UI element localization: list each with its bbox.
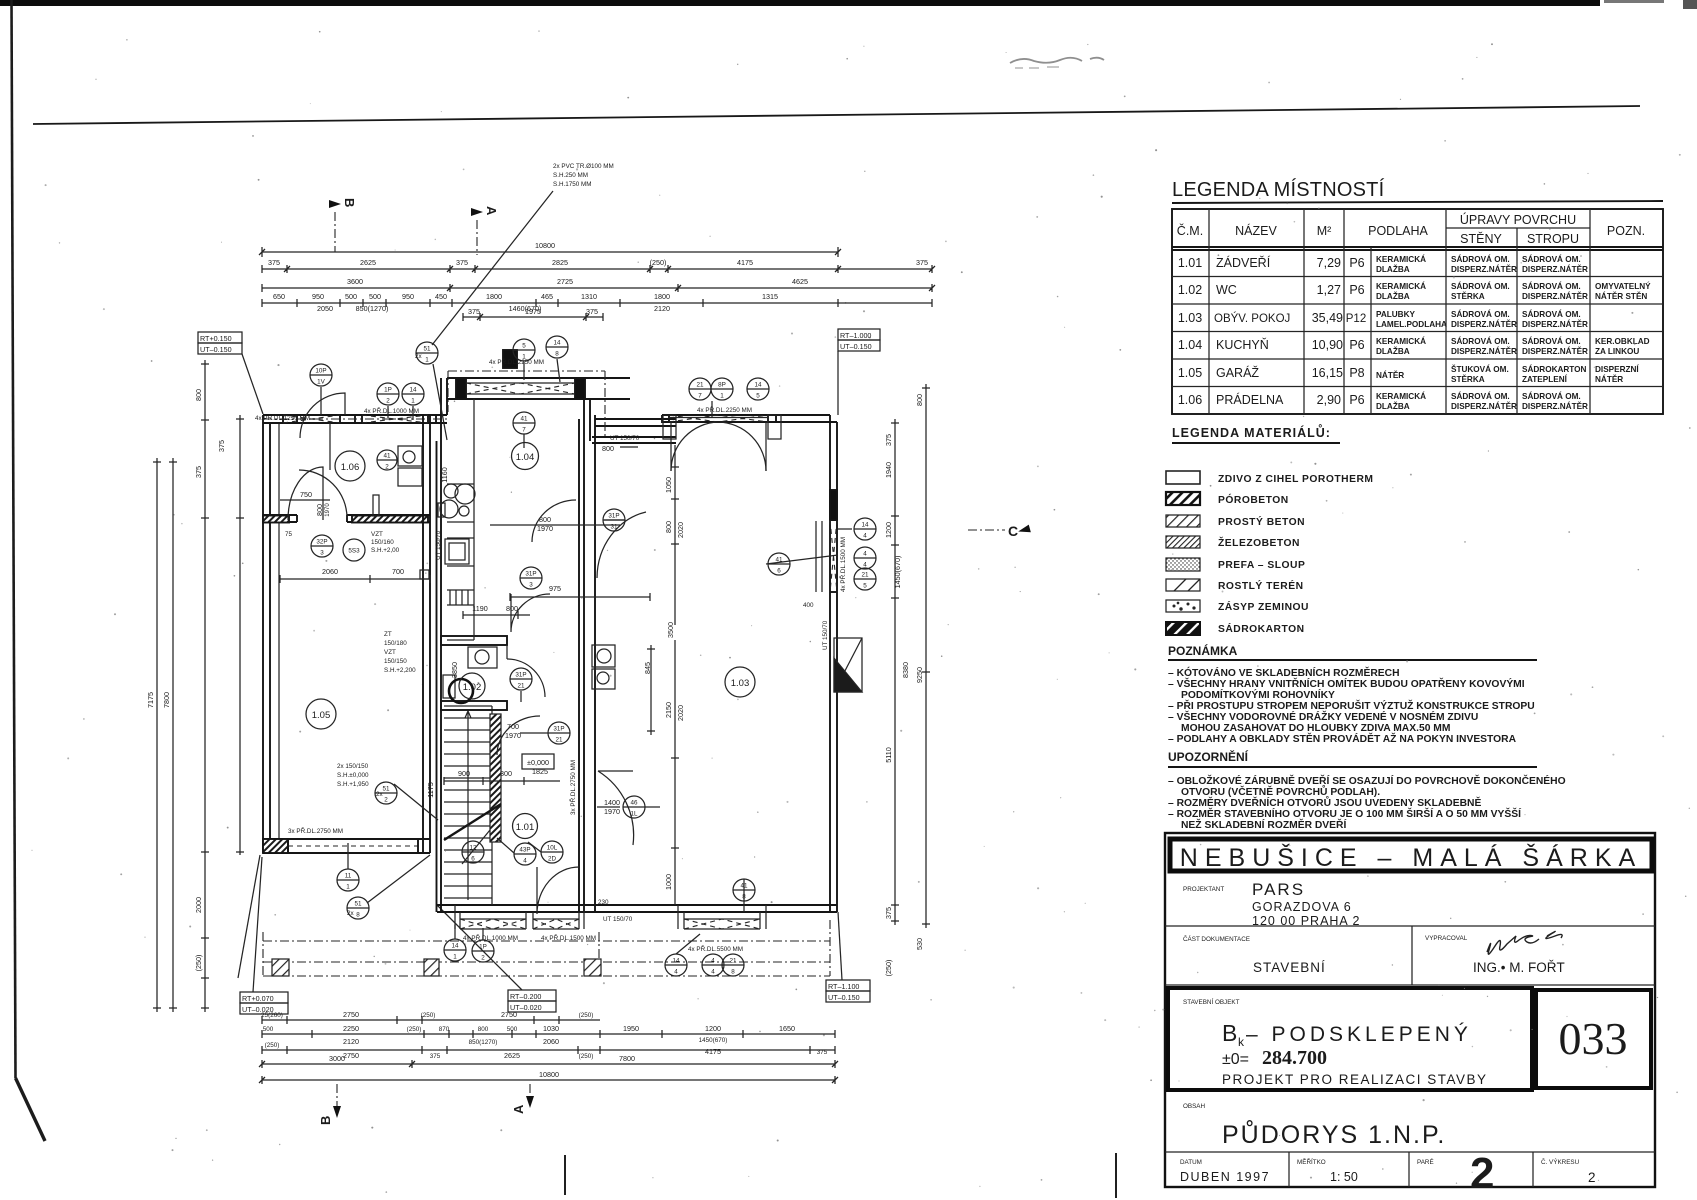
svg-text:41: 41 (383, 453, 391, 460)
svg-text:1160: 1160 (440, 467, 449, 482)
svg-text:500: 500 (263, 1026, 274, 1033)
svg-text:1950: 1950 (623, 1024, 639, 1033)
svg-text:75: 75 (285, 531, 293, 538)
svg-text:4: 4 (711, 969, 715, 976)
svg-text:KERAMICKÁ: KERAMICKÁ (1376, 281, 1426, 291)
svg-text:1800: 1800 (486, 292, 502, 301)
svg-text:KERAMICKÁ: KERAMICKÁ (1376, 336, 1426, 346)
svg-text:4175: 4175 (705, 1047, 721, 1056)
svg-text:SÁDROVÁ OM.: SÁDROVÁ OM. (1451, 336, 1510, 346)
svg-text:ZATEPLENÍ: ZATEPLENÍ (1522, 374, 1568, 384)
svg-text:NEŽ SKLADEBNÍ ROZMĚR DVEŘÍ: NEŽ SKLADEBNÍ ROZMĚR DVEŘÍ (1181, 818, 1347, 831)
svg-text:2625: 2625 (360, 258, 376, 267)
svg-text:31P: 31P (525, 571, 536, 578)
svg-text:375: 375 (194, 466, 203, 478)
svg-text:VZT: VZT (384, 649, 396, 656)
svg-text:14: 14 (553, 340, 561, 347)
svg-text:DATUM: DATUM (1180, 1159, 1202, 1166)
svg-text:PRÁDELNA: PRÁDELNA (1216, 392, 1284, 407)
svg-text:PODLAHA: PODLAHA (1368, 224, 1428, 238)
svg-text:1450(670): 1450(670) (893, 556, 902, 589)
svg-text:2D: 2D (548, 856, 557, 863)
svg-text:2x PVC TR.Ø100 MM: 2x PVC TR.Ø100 MM (553, 163, 614, 170)
svg-text:800: 800 (915, 394, 924, 406)
svg-text:14: 14 (451, 943, 459, 950)
svg-text:PÓROBETON: PÓROBETON (1218, 493, 1289, 506)
svg-text:PROJEKT PRO REALIZACI STAVBY: PROJEKT PRO REALIZACI STAVBY (1222, 1072, 1488, 1087)
svg-text:2750: 2750 (343, 1051, 359, 1060)
svg-text:150/150: 150/150 (384, 658, 407, 665)
svg-text:RT–1.000: RT–1.000 (840, 331, 871, 340)
svg-text:ČÁST DOKUMENTACE: ČÁST DOKUMENTACE (1183, 934, 1250, 943)
svg-text:2,90: 2,90 (1317, 393, 1341, 407)
svg-text:POZNÁMKA: POZNÁMKA (1168, 643, 1238, 658)
svg-text:UT–0.150: UT–0.150 (200, 345, 232, 354)
svg-text:(250): (250) (194, 955, 203, 972)
svg-text:800: 800 (478, 1026, 489, 1033)
svg-text:43P: 43P (519, 847, 530, 854)
svg-text:STĚNY: STĚNY (1460, 231, 1502, 246)
svg-text:850(1270): 850(1270) (356, 304, 389, 313)
svg-text:7,29: 7,29 (1317, 256, 1341, 270)
svg-text:2060: 2060 (322, 567, 338, 576)
svg-text:1310: 1310 (581, 292, 597, 301)
svg-text:1L: 1L (630, 811, 638, 818)
svg-text:STAVEBNÍ: STAVEBNÍ (1253, 960, 1326, 975)
svg-text:21: 21 (729, 958, 737, 965)
svg-text:800: 800 (602, 444, 614, 453)
svg-text:3: 3 (320, 550, 324, 557)
svg-text:NÁZEV: NÁZEV (1235, 223, 1277, 238)
svg-text:±0=: ±0= (1222, 1051, 1249, 1068)
svg-text:OMYVATELNÝ: OMYVATELNÝ (1595, 280, 1651, 291)
svg-text:5110: 5110 (884, 747, 893, 762)
svg-text:RT+0.070: RT+0.070 (242, 994, 274, 1003)
svg-text:– VŠECHNY VODOROVNÉ DRÁŽKY VE: – VŠECHNY VODOROVNÉ DRÁŽKY VEDENÉ V NOSN… (1168, 710, 1478, 723)
svg-text:750: 750 (300, 490, 312, 499)
svg-text:4: 4 (863, 533, 867, 540)
svg-text:1.01: 1.01 (1178, 256, 1202, 270)
svg-text:25(260): 25(260) (261, 1012, 283, 1019)
svg-text:NÁTĚR STĚN: NÁTĚR STĚN (1595, 290, 1647, 301)
svg-text:033: 033 (1559, 1013, 1628, 1064)
svg-text:2: 2 (1588, 1170, 1596, 1185)
svg-text:650: 650 (273, 292, 285, 301)
svg-text:1.06: 1.06 (341, 462, 360, 473)
svg-text:800: 800 (664, 521, 673, 533)
svg-text:2250: 2250 (343, 1024, 359, 1033)
svg-text:2060: 2060 (543, 1037, 559, 1046)
svg-text:1.03: 1.03 (1178, 311, 1202, 325)
svg-text:375: 375 (586, 307, 598, 316)
svg-text:465: 465 (541, 292, 553, 301)
svg-text:DISPERZ.NÁTĚR: DISPERZ.NÁTĚR (1451, 345, 1517, 356)
svg-text:5: 5 (863, 583, 867, 590)
svg-text:3000: 3000 (329, 1054, 345, 1063)
svg-text:1V: 1V (317, 379, 326, 386)
svg-text:14: 14 (409, 387, 417, 394)
svg-text:ÚPRAVY POVRCHU: ÚPRAVY POVRCHU (1460, 212, 1576, 227)
svg-text:A: A (511, 1104, 526, 1114)
svg-text:SÁDROVÁ OM.: SÁDROVÁ OM. (1522, 336, 1581, 346)
svg-text:S.H.+2,200: S.H.+2,200 (384, 667, 416, 674)
svg-text:A: A (484, 206, 499, 216)
svg-text:400: 400 (803, 602, 814, 609)
svg-text:3x PŘ.DL.2750 MM: 3x PŘ.DL.2750 MM (288, 826, 343, 835)
svg-text:ZDIVO Z CIHEL POROTHERM: ZDIVO Z CIHEL POROTHERM (1218, 474, 1373, 485)
svg-text:(250): (250) (265, 1042, 280, 1049)
svg-text:2: 2 (481, 955, 485, 962)
svg-text:PROJEKTANT: PROJEKTANT (1183, 886, 1224, 893)
svg-text:10800: 10800 (539, 1070, 559, 1079)
svg-text:4x PŘ.DL.2250 MM: 4x PŘ.DL.2250 MM (489, 357, 544, 366)
svg-text:1175: 1175 (426, 782, 435, 797)
svg-text:21: 21 (861, 572, 869, 579)
svg-text:2020: 2020 (676, 522, 685, 538)
svg-text:10,90: 10,90 (1312, 338, 1343, 352)
svg-text:32P: 32P (316, 539, 327, 546)
svg-text:WC: WC (1216, 283, 1237, 297)
svg-text:4x PŘ.DL:1250 MM: 4x PŘ.DL:1250 MM (255, 413, 310, 422)
svg-text:UT 150/70: UT 150/70 (435, 530, 442, 560)
svg-text:500: 500 (369, 292, 381, 301)
svg-text:4625: 4625 (792, 277, 808, 286)
svg-text:RT–1.100: RT–1.100 (828, 982, 859, 991)
svg-text:OBSAH: OBSAH (1183, 1103, 1205, 1110)
svg-text:UT 150/70: UT 150/70 (603, 916, 633, 923)
svg-text:800: 800 (194, 389, 203, 401)
svg-text:DISPERZ.NÁTĚR: DISPERZ.NÁTĚR (1451, 318, 1517, 329)
svg-text:500: 500 (345, 292, 357, 301)
svg-text:1: 1 (453, 954, 457, 961)
svg-text:KER.OBKLAD: KER.OBKLAD (1595, 337, 1650, 346)
svg-text:OTVORU (VČETNĚ POVRCHŮ PODLAH): OTVORU (VČETNĚ POVRCHŮ PODLAH). (1181, 784, 1380, 798)
svg-text:150/180: 150/180 (384, 640, 407, 647)
svg-text:S.H.+2,00: S.H.+2,00 (371, 547, 400, 554)
svg-text:1800: 1800 (654, 292, 670, 301)
svg-text:2150: 2150 (664, 702, 673, 718)
svg-text:35,49: 35,49 (1312, 311, 1343, 325)
svg-text:(250): (250) (407, 1026, 422, 1033)
svg-text:PARÉ: PARÉ (1417, 1157, 1434, 1166)
svg-text:3600: 3600 (347, 277, 363, 286)
svg-text:(250): (250) (421, 1012, 436, 1019)
svg-text:DLAŽBA: DLAŽBA (1376, 400, 1410, 411)
svg-text:Č. VÝKRESU: Č. VÝKRESU (1541, 1157, 1580, 1166)
svg-text:4: 4 (711, 958, 715, 965)
svg-text:MOHOU ZASAHOVAT DO HLOUBKY ZDI: MOHOU ZASAHOVAT DO HLOUBKY ZDIVA MAX.50 … (1181, 723, 1450, 734)
svg-text:DUBEN 1997: DUBEN 1997 (1180, 1170, 1270, 1184)
svg-text:SÁDROVÁ OM.: SÁDROVÁ OM. (1451, 391, 1510, 401)
svg-text:B: B (1222, 1020, 1237, 1046)
svg-text:1P: 1P (384, 387, 392, 394)
svg-text:375: 375 (456, 258, 468, 267)
svg-text:950: 950 (312, 292, 324, 301)
svg-text:2: 2 (386, 398, 390, 405)
svg-text:4x PŘ.DL.1500 MM: 4x PŘ.DL.1500 MM (838, 537, 847, 592)
svg-text:– PŘI PROSTUPU STROPEM NEPORU: – PŘI PROSTUPU STROPEM NEPORUŠIT VÝZTUŽ … (1168, 699, 1535, 712)
svg-text:1.04: 1.04 (516, 452, 535, 463)
svg-text:– ROZMĚRY DVEŘNÍCH OTVORŮ JSO: – ROZMĚRY DVEŘNÍCH OTVORŮ JSOU UVEDENY S… (1168, 795, 1481, 809)
svg-text:ŠTUKOVÁ OM.: ŠTUKOVÁ OM. (1451, 363, 1509, 374)
svg-text:UPOZORNĚNÍ: UPOZORNĚNÍ (1168, 749, 1249, 764)
svg-text:1: 1 (720, 393, 724, 400)
svg-text:VZT: VZT (371, 531, 383, 538)
svg-text:2: 2 (385, 464, 389, 471)
svg-text:LEGENDA MÍSTNOSTÍ: LEGENDA MÍSTNOSTÍ (1172, 178, 1385, 201)
svg-text:1.03: 1.03 (731, 678, 750, 689)
svg-text:– PODLAHY A OBKLADY STĚN PROV: – PODLAHY A OBKLADY STĚN PROVÁDĚT AŽ NA … (1168, 732, 1517, 745)
svg-text:150/160: 150/160 (371, 539, 394, 546)
svg-text:ING.• M. FOŘT: ING.• M. FOŘT (1473, 960, 1565, 975)
svg-text:GARÁŽ: GARÁŽ (1216, 365, 1259, 380)
svg-text:NÁTĚR: NÁTĚR (1376, 369, 1404, 380)
svg-text:4x PŘ.DL.1000 MM: 4x PŘ.DL.1000 MM (364, 406, 419, 415)
svg-text:375: 375 (884, 907, 893, 919)
svg-text:8: 8 (731, 969, 735, 976)
svg-text:3: 3 (529, 582, 533, 589)
svg-text:10L: 10L (547, 845, 558, 852)
svg-text:SÁDROVÁ OM.: SÁDROVÁ OM. (1522, 281, 1581, 291)
svg-text:375: 375 (268, 258, 280, 267)
svg-text:14: 14 (754, 382, 762, 389)
svg-text:KERAMICKÁ: KERAMICKÁ (1376, 391, 1426, 401)
svg-text:1970: 1970 (604, 807, 620, 816)
svg-text:7175: 7175 (146, 692, 155, 708)
svg-text:1: 1 (411, 398, 415, 405)
svg-text:1000: 1000 (664, 874, 673, 890)
svg-text:4: 4 (863, 551, 867, 558)
svg-text:UT 150/70: UT 150/70 (822, 620, 829, 650)
svg-text:2750: 2750 (343, 1010, 359, 1019)
svg-text:UT–0.150: UT–0.150 (828, 993, 860, 1002)
svg-text:(250): (250) (579, 1012, 594, 1019)
svg-text:1940: 1940 (884, 462, 893, 478)
svg-text:2x: 2x (376, 791, 384, 798)
svg-text:2725: 2725 (557, 277, 573, 286)
svg-text:1200: 1200 (884, 522, 893, 538)
svg-text:4x PŘ.DL.1500 MM: 4x PŘ.DL.1500 MM (541, 933, 596, 942)
svg-text:NÁTĚR: NÁTĚR (1595, 373, 1623, 384)
svg-text:300: 300 (500, 769, 512, 778)
svg-text:11: 11 (345, 873, 352, 880)
svg-text:– PODSKLEPENÝ: – PODSKLEPENÝ (1246, 1023, 1472, 1046)
svg-text:DISPERZ.NÁTĚR: DISPERZ.NÁTĚR (1522, 263, 1588, 274)
svg-text:2750: 2750 (501, 1010, 517, 1019)
svg-text:7800: 7800 (619, 1054, 635, 1063)
svg-text:8380: 8380 (901, 662, 910, 678)
svg-text:ROSTLÝ TERÉN: ROSTLÝ TERÉN (1218, 579, 1304, 592)
svg-text:P6: P6 (1349, 256, 1364, 270)
svg-text:STĚRKA: STĚRKA (1451, 290, 1485, 301)
svg-text:14: 14 (861, 522, 869, 529)
svg-text:46: 46 (630, 800, 638, 807)
svg-text:5: 5 (522, 343, 526, 350)
svg-text:2x 150/150: 2x 150/150 (337, 763, 369, 770)
svg-text:S.H.1750 MM: S.H.1750 MM (553, 181, 592, 188)
svg-text:375: 375 (916, 258, 928, 267)
svg-text:LEGENDA MATERIÁLŮ:: LEGENDA MATERIÁLŮ: (1172, 424, 1331, 440)
svg-text:2x: 2x (415, 353, 423, 360)
svg-text:7: 7 (698, 393, 702, 400)
svg-text:B: B (318, 1116, 333, 1125)
svg-text:800: 800 (539, 515, 551, 524)
svg-text:870: 870 (439, 1026, 450, 1033)
svg-text:1.05: 1.05 (1178, 366, 1202, 380)
svg-text:375: 375 (217, 440, 226, 452)
svg-text:5: 5 (756, 393, 760, 400)
svg-text:1450(670): 1450(670) (699, 1037, 728, 1044)
svg-text:700: 700 (392, 567, 404, 576)
svg-text:900: 900 (458, 769, 470, 778)
svg-text:375: 375 (884, 434, 893, 446)
svg-text:k: k (1238, 1035, 1245, 1049)
svg-text:DISPERZ.NÁTĚR: DISPERZ.NÁTĚR (1522, 345, 1588, 356)
svg-text:PROSTÝ BETON: PROSTÝ BETON (1218, 515, 1305, 528)
svg-text:230: 230 (598, 899, 609, 906)
svg-text:8P: 8P (718, 382, 726, 389)
svg-text:STAVEBNÍ OBJEKT: STAVEBNÍ OBJEKT (1183, 997, 1240, 1006)
svg-text:950: 950 (402, 292, 414, 301)
svg-text:DLAŽBA: DLAŽBA (1376, 263, 1410, 274)
svg-text:2050: 2050 (317, 304, 333, 313)
svg-text:2020: 2020 (676, 705, 685, 721)
svg-text:SÁDROKARTON: SÁDROKARTON (1218, 622, 1305, 635)
svg-text:8: 8 (555, 351, 559, 358)
svg-text:– VŠECHNY HRANY VNITŘNÍCH OMÍ: – VŠECHNY HRANY VNITŘNÍCH OMÍTEK BUDOU O… (1168, 677, 1525, 690)
svg-text:SÁDROVÁ OM.: SÁDROVÁ OM. (1451, 309, 1510, 319)
svg-text:16,15: 16,15 (1312, 366, 1343, 380)
svg-text:S.H.250 MM: S.H.250 MM (553, 172, 588, 179)
svg-text:284.700: 284.700 (1262, 1047, 1327, 1069)
svg-text:DISPERZ.NÁTĚR: DISPERZ.NÁTĚR (1451, 263, 1517, 274)
svg-text:1030: 1030 (543, 1024, 559, 1033)
svg-text:ZA LINKOU: ZA LINKOU (1595, 347, 1639, 356)
svg-text:P6: P6 (1349, 393, 1364, 407)
svg-text:1050: 1050 (664, 477, 673, 493)
svg-text:SÁDROVÁ OM.: SÁDROVÁ OM. (1451, 254, 1510, 264)
svg-text:21: 21 (555, 737, 563, 744)
svg-text:1.02: 1.02 (1178, 283, 1202, 297)
svg-text:700: 700 (507, 722, 519, 731)
svg-text:4: 4 (674, 969, 678, 976)
svg-text:2: 2 (384, 797, 388, 804)
svg-text:STROPU: STROPU (1527, 232, 1579, 246)
svg-text:375: 375 (817, 1049, 828, 1056)
svg-text:VYPRACOVAL: VYPRACOVAL (1425, 935, 1468, 942)
svg-text:ZÁSYP ZEMINOU: ZÁSYP ZEMINOU (1218, 600, 1309, 613)
svg-text:500: 500 (507, 1026, 518, 1033)
svg-text:STĚRKA: STĚRKA (1451, 373, 1485, 384)
svg-text:SÁDROVÁ OM.: SÁDROVÁ OM. (1522, 309, 1581, 319)
svg-text:1400: 1400 (604, 798, 620, 807)
svg-text:1975: 1975 (525, 307, 541, 316)
svg-text:S.H.±0,000: S.H.±0,000 (337, 772, 369, 779)
svg-text:RT–0.200: RT–0.200 (510, 992, 541, 1001)
svg-text:31P: 31P (553, 726, 564, 733)
svg-text:DISPERZ.NÁTĚR: DISPERZ.NÁTĚR (1522, 400, 1588, 411)
svg-text:P6: P6 (1349, 283, 1364, 297)
svg-text:2120: 2120 (654, 304, 670, 313)
svg-text:1825: 1825 (532, 767, 548, 776)
svg-text:1.02: 1.02 (463, 682, 482, 693)
svg-text:LAMEL.PODLAHA: LAMEL.PODLAHA (1376, 320, 1447, 329)
svg-text:4x PŘ.DL.5500 MM: 4x PŘ.DL.5500 MM (688, 944, 743, 953)
svg-text:4175: 4175 (737, 258, 753, 267)
svg-text:SÁDROKARTON: SÁDROKARTON (1522, 364, 1587, 374)
svg-text:KUCHYŇ: KUCHYŇ (1216, 337, 1269, 352)
svg-text:3x PŘ.DL.2750 MM: 3x PŘ.DL.2750 MM (568, 760, 577, 815)
svg-text:21: 21 (517, 683, 525, 690)
svg-text:375: 375 (430, 1053, 441, 1060)
svg-text:– ROZMĚR STAVEBNÍHO OTVORU JE: – ROZMĚR STAVEBNÍHO OTVORU JE O 100 MM Š… (1168, 807, 1522, 820)
svg-text:1315: 1315 (762, 292, 778, 301)
svg-text:7: 7 (522, 427, 526, 434)
svg-text:DISPERZNÍ: DISPERZNÍ (1595, 364, 1639, 374)
svg-text:51: 51 (423, 346, 431, 353)
svg-text:ŽELEZOBETON: ŽELEZOBETON (1218, 536, 1300, 549)
svg-text:1.04: 1.04 (1178, 338, 1202, 352)
svg-text:800: 800 (315, 504, 324, 516)
svg-text:PODOMÍTKOVÝMI ROHOVNÍKY: PODOMÍTKOVÝMI ROHOVNÍKY (1181, 688, 1335, 701)
svg-text:2625: 2625 (504, 1051, 520, 1060)
svg-text:DISPERZ.NÁTĚR: DISPERZ.NÁTĚR (1522, 318, 1588, 329)
svg-text:4x PŘ.DL.1000 MM: 4x PŘ.DL.1000 MM (463, 933, 518, 942)
svg-text:1970: 1970 (325, 503, 331, 517)
svg-text:10800: 10800 (535, 241, 555, 250)
svg-text:Č.M.: Č.M. (1177, 223, 1203, 238)
svg-text:1650: 1650 (779, 1024, 795, 1033)
svg-text:SÁDROVÁ OM.: SÁDROVÁ OM. (1451, 281, 1510, 291)
svg-text:8: 8 (356, 912, 360, 919)
svg-text:PALUBKY: PALUBKY (1376, 310, 1416, 319)
svg-text:975: 975 (549, 584, 561, 593)
svg-text:1.06: 1.06 (1178, 393, 1202, 407)
svg-text:3500: 3500 (666, 622, 675, 638)
svg-text:S.H.+1,950: S.H.+1,950 (337, 781, 369, 788)
svg-text:51: 51 (354, 901, 362, 908)
svg-text:SÁDROVÁ OM.: SÁDROVÁ OM. (1522, 391, 1581, 401)
svg-text:RT+0.150: RT+0.150 (200, 334, 232, 343)
svg-text:1: 1 (346, 884, 350, 891)
svg-text:41: 41 (520, 416, 528, 423)
svg-text:DISPERZ.NÁTĚR: DISPERZ.NÁTĚR (1522, 290, 1588, 301)
svg-text:530: 530 (915, 938, 924, 950)
svg-text:±0,000: ±0,000 (527, 758, 549, 767)
svg-text:KERAMICKÁ: KERAMICKÁ (1376, 254, 1426, 264)
svg-text:120 00 PRAHA 2: 120 00 PRAHA 2 (1252, 914, 1361, 928)
svg-text:375: 375 (468, 307, 480, 316)
svg-text:9250: 9250 (915, 667, 924, 683)
svg-text:(250): (250) (884, 960, 893, 977)
svg-text:2000: 2000 (194, 897, 203, 913)
svg-text:UT 150/70: UT 150/70 (610, 435, 640, 442)
svg-text:UT–0.150: UT–0.150 (840, 342, 872, 351)
svg-text:7800: 7800 (162, 692, 171, 708)
svg-text:1.05: 1.05 (312, 710, 331, 721)
svg-text:21: 21 (696, 382, 704, 389)
svg-text:POZN.: POZN. (1607, 224, 1645, 238)
svg-text:DLAŽBA: DLAŽBA (1376, 290, 1410, 301)
svg-text:1P: 1P (479, 944, 487, 951)
svg-text:ZÁDVEŘÍ: ZÁDVEŘÍ (1216, 255, 1271, 270)
svg-text:GORAZDOVA 6: GORAZDOVA 6 (1252, 900, 1352, 914)
svg-text:B: B (342, 198, 357, 207)
svg-text:MĚŘÍTKO: MĚŘÍTKO (1297, 1157, 1326, 1166)
svg-text:P8: P8 (1349, 366, 1364, 380)
svg-text:1,27: 1,27 (1317, 283, 1341, 297)
svg-text:P6: P6 (1349, 338, 1364, 352)
